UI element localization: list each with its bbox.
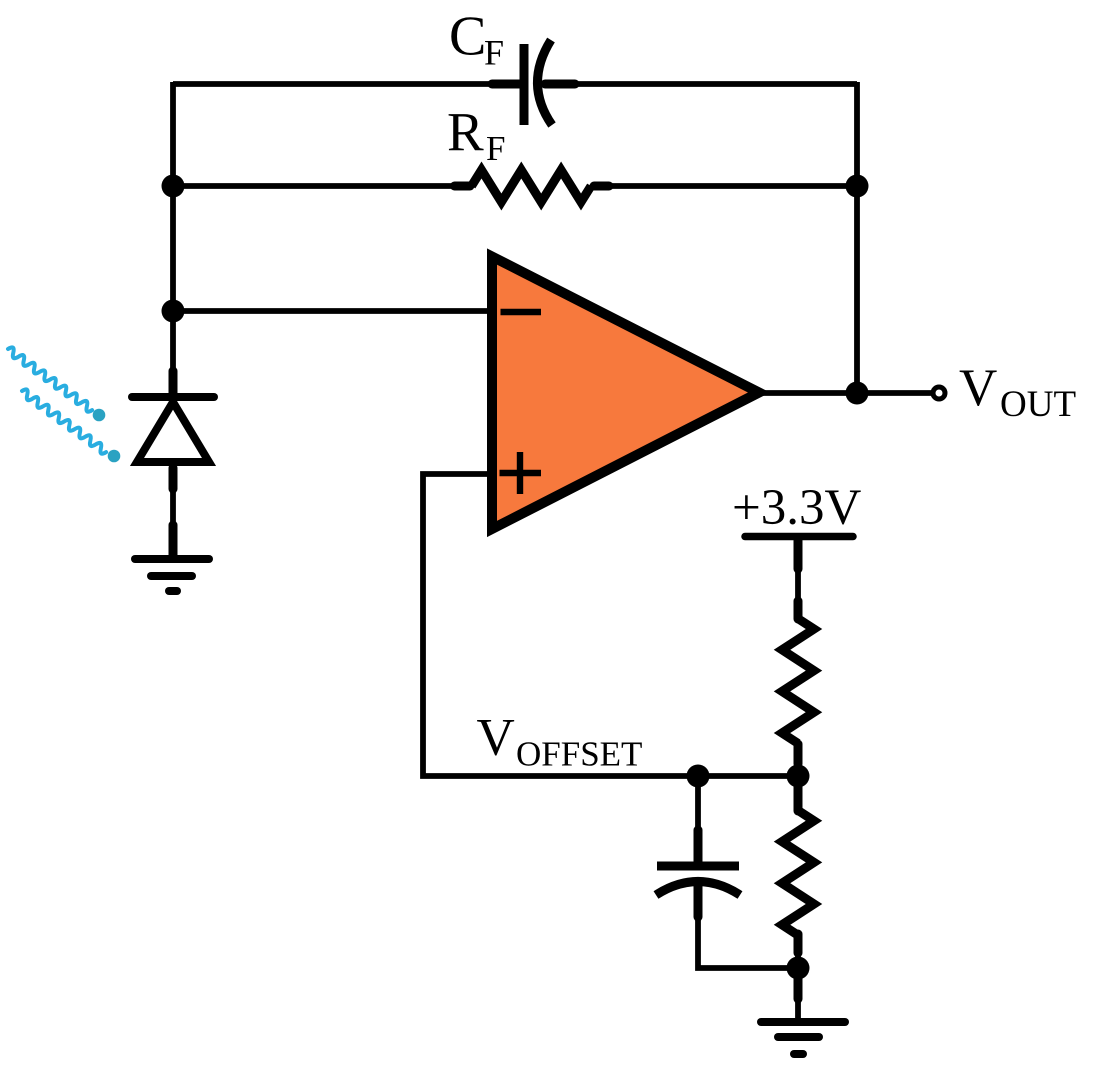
svg-text:OUT: OUT [1000,384,1076,425]
svg-text:R: R [447,102,484,163]
svg-text:F: F [486,129,505,168]
svg-text:F: F [484,33,504,73]
svg-text:C: C [449,6,486,68]
svg-text:OFFSET: OFFSET [516,735,642,774]
svg-text:V: V [477,709,515,767]
svg-text:+3.3V: +3.3V [732,480,862,536]
svg-text:V: V [959,359,997,417]
